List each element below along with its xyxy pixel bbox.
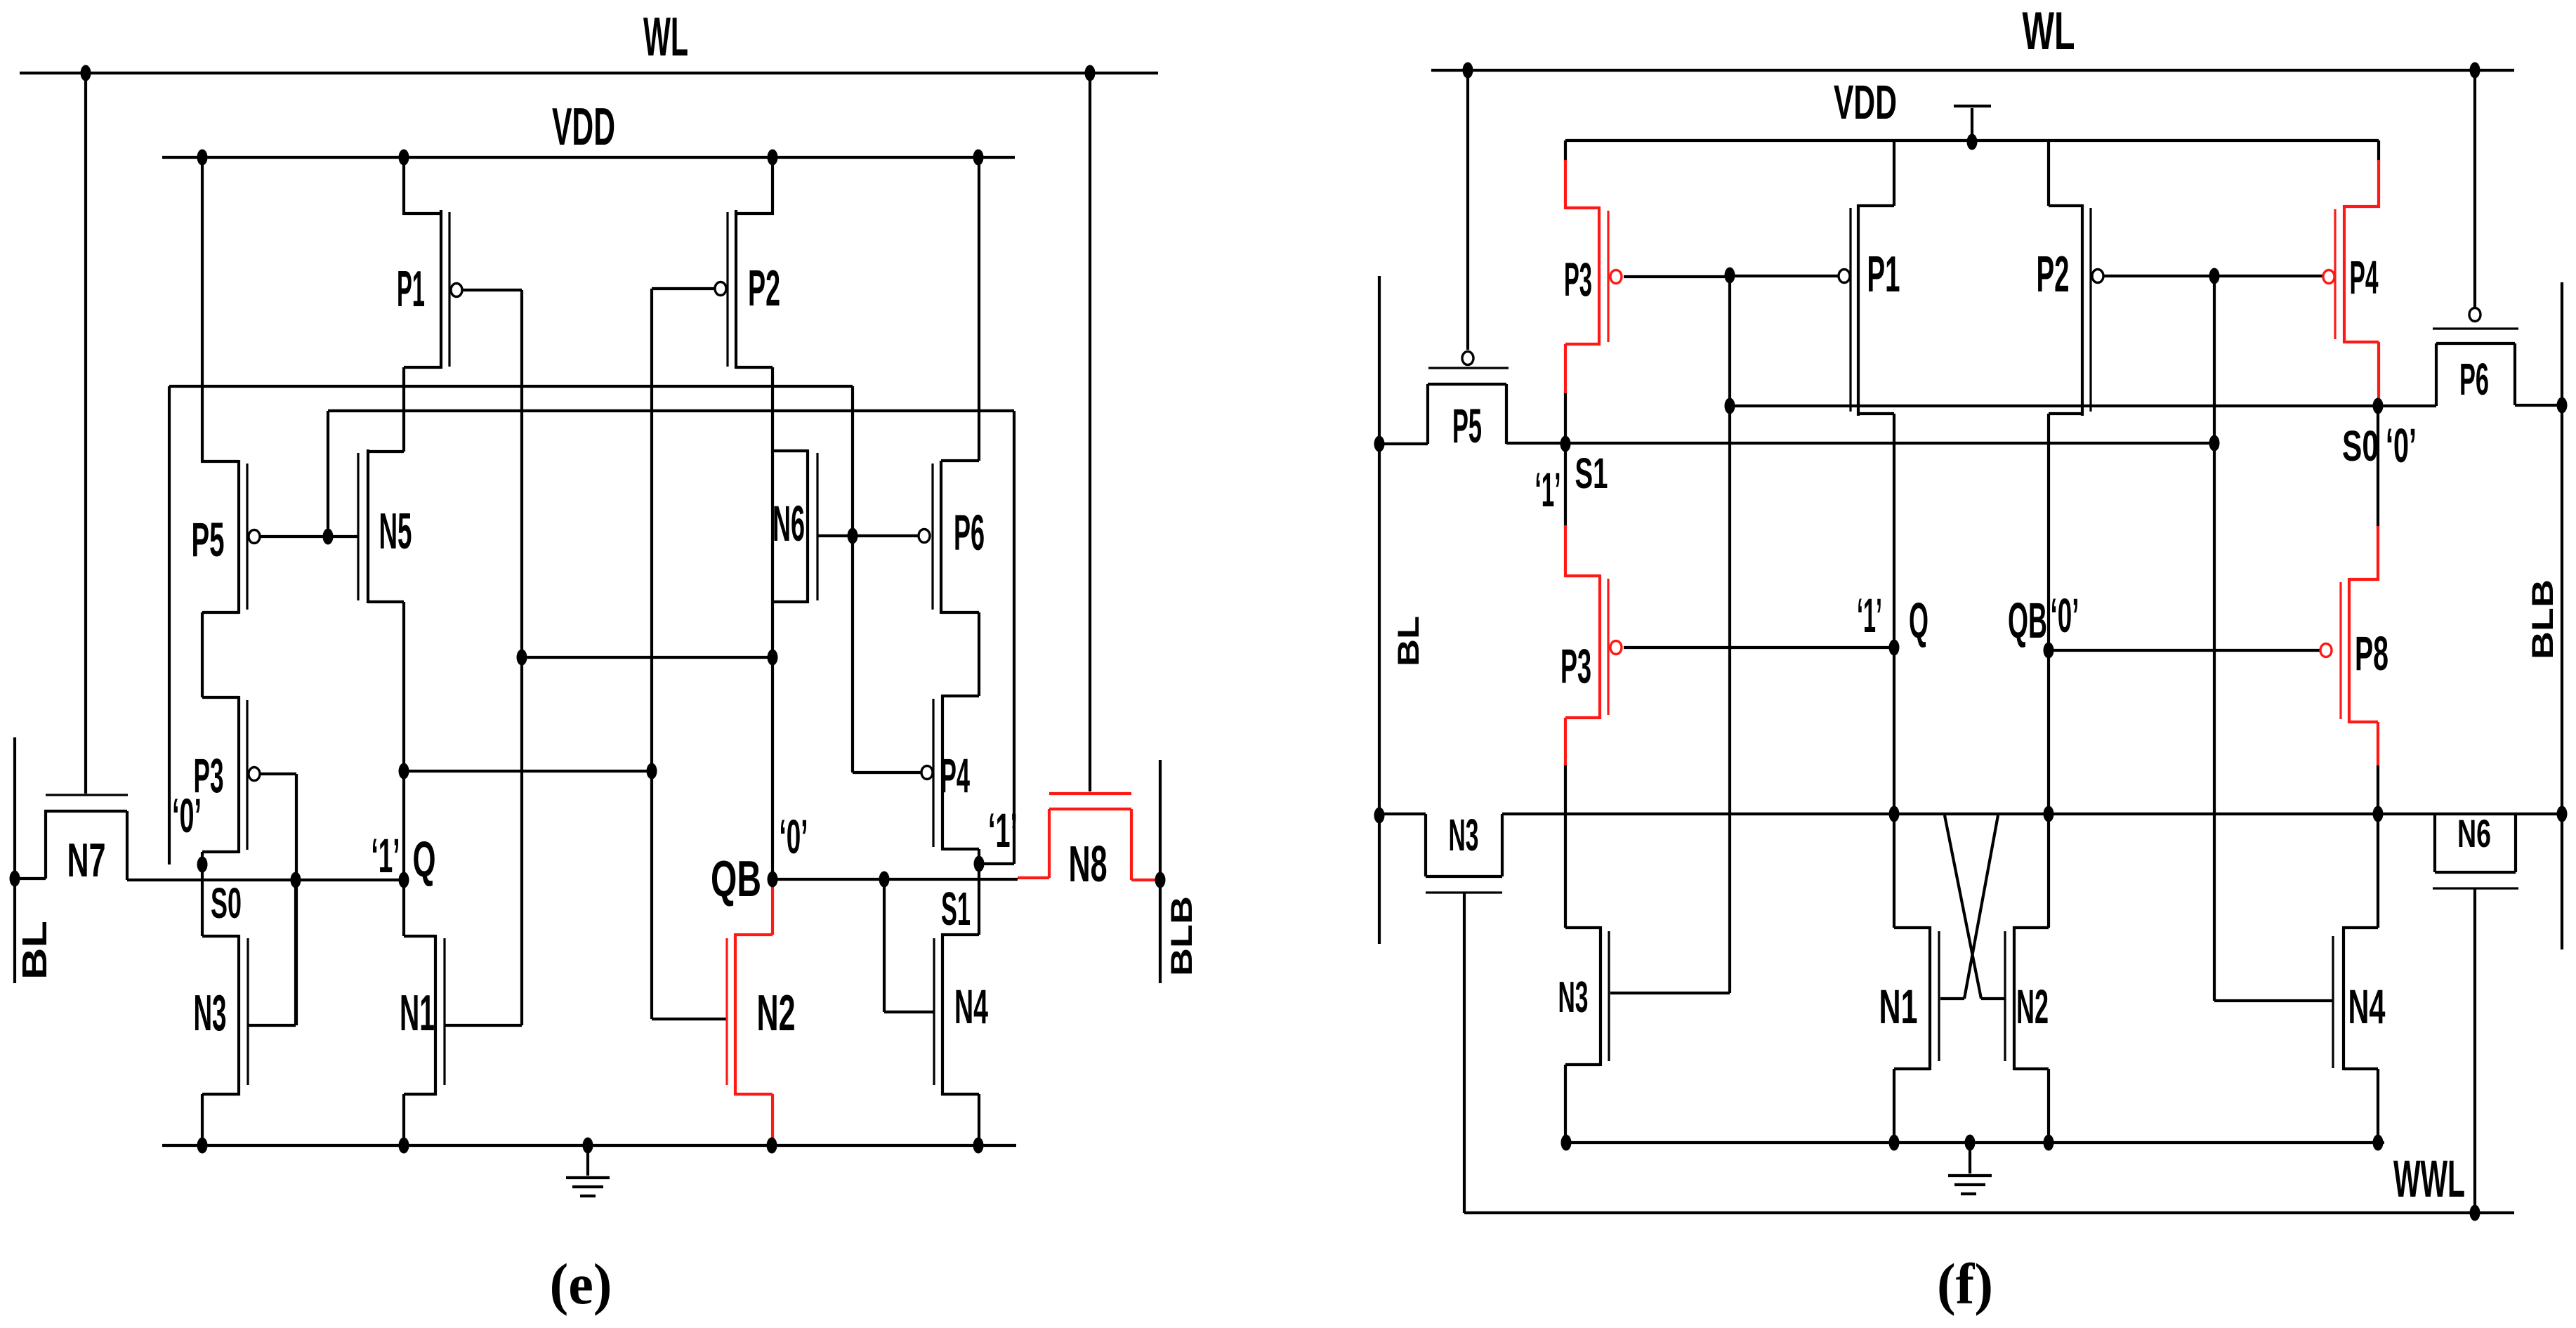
svg-text:N6: N6 <box>773 497 805 552</box>
svg-text:P3: P3 <box>1560 639 1591 693</box>
svg-text:N3: N3 <box>1449 810 1479 860</box>
svg-text:P1: P1 <box>397 261 425 317</box>
svg-text:Q: Q <box>413 832 436 888</box>
svg-text:‘1’: ‘1’ <box>1857 589 1882 643</box>
svg-text:BLB: BLB <box>1165 896 1199 976</box>
svg-text:‘0’: ‘0’ <box>2051 589 2079 643</box>
svg-text:N1: N1 <box>400 985 435 1041</box>
svg-text:QB: QB <box>2008 593 2047 649</box>
svg-text:S0: S0 <box>2342 422 2379 470</box>
svg-text:N1: N1 <box>1879 980 1918 1034</box>
svg-text:BLB: BLB <box>2526 579 2560 659</box>
svg-text:P5: P5 <box>1452 399 1482 453</box>
svg-text:N2: N2 <box>757 985 796 1041</box>
svg-text:‘0’: ‘0’ <box>780 810 808 864</box>
svg-text:N6: N6 <box>2457 811 2491 855</box>
svg-text:(f): (f) <box>1937 1251 1993 1316</box>
svg-text:S1: S1 <box>1575 449 1608 497</box>
svg-text:N2: N2 <box>2016 980 2049 1034</box>
svg-text:‘1’: ‘1’ <box>372 829 400 883</box>
svg-text:N7: N7 <box>67 834 106 887</box>
svg-text:P6: P6 <box>2459 354 2489 405</box>
svg-text:P3: P3 <box>1564 253 1592 306</box>
svg-text:N4: N4 <box>2348 980 2386 1034</box>
svg-text:WL: WL <box>643 6 688 67</box>
svg-text:N8: N8 <box>1069 836 1108 893</box>
svg-text:VDD: VDD <box>1834 75 1897 129</box>
svg-text:P6: P6 <box>954 506 985 561</box>
svg-text:N4: N4 <box>954 980 988 1034</box>
svg-text:P2: P2 <box>2037 246 2070 303</box>
svg-text:P1: P1 <box>1867 246 1900 303</box>
svg-text:P8: P8 <box>2355 626 2388 681</box>
svg-text:‘1’: ‘1’ <box>1535 463 1561 517</box>
svg-text:QB: QB <box>711 851 761 907</box>
svg-text:P2: P2 <box>748 261 780 317</box>
svg-text:N5: N5 <box>379 504 412 560</box>
svg-text:‘0’: ‘0’ <box>172 789 202 843</box>
svg-text:P4: P4 <box>2350 251 2379 304</box>
svg-text:VDD: VDD <box>552 97 615 156</box>
svg-text:WL: WL <box>2023 1 2075 61</box>
svg-text:S1: S1 <box>941 883 971 935</box>
svg-text:‘0’: ‘0’ <box>2386 419 2417 473</box>
svg-text:WWL: WWL <box>2393 1150 2465 1208</box>
svg-text:P5: P5 <box>192 513 225 567</box>
svg-text:(e): (e) <box>550 1251 612 1316</box>
svg-text:‘1’: ‘1’ <box>988 803 1018 857</box>
svg-text:Q: Q <box>1909 593 1928 649</box>
svg-text:BL: BL <box>1392 616 1426 666</box>
svg-text:P4: P4 <box>940 749 970 803</box>
svg-text:BL: BL <box>16 921 54 980</box>
svg-text:N3: N3 <box>194 985 227 1041</box>
svg-text:N3: N3 <box>1558 973 1589 1022</box>
svg-text:S0: S0 <box>211 879 242 927</box>
